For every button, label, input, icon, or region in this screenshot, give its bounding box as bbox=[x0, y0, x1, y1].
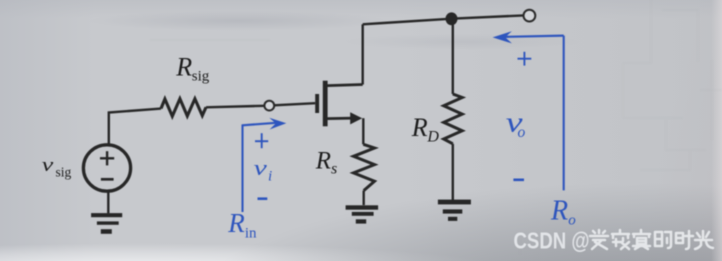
label - (input) bbox=[258, 197, 268, 200]
watermark chinese glyphs bbox=[590, 230, 713, 249]
svg-text:i: i bbox=[268, 169, 272, 185]
transistor Q1 drain lead bbox=[328, 85, 363, 86]
label + (input) bbox=[255, 133, 268, 148]
wire R_sig to input node bbox=[206, 106, 265, 108]
svg-text:R: R bbox=[175, 53, 192, 82]
source v_sig plus bbox=[100, 151, 114, 165]
svg-text:in: in bbox=[245, 225, 257, 241]
svg-text:o: o bbox=[518, 124, 526, 141]
transistor Q1 gate bar bbox=[315, 94, 319, 113]
resistor R_D bbox=[444, 94, 463, 144]
watermark CSDN @ bbox=[514, 228, 590, 254]
svg-text:o: o bbox=[568, 212, 576, 228]
label + (output) bbox=[518, 52, 532, 66]
svg-text:R: R bbox=[550, 196, 568, 227]
wire R_D to ground bbox=[452, 144, 454, 200]
label - (output) bbox=[513, 179, 524, 182]
wire junction down to R_D bbox=[452, 19, 454, 94]
wire: v_sig top lead up and across to R_sig bbox=[109, 109, 161, 146]
resistor R_s bbox=[354, 144, 375, 190]
R_o arrow (blue) bbox=[493, 31, 564, 190]
svg-text:s: s bbox=[331, 161, 337, 178]
wire source down to R_s bbox=[362, 118, 364, 144]
ground (R_s) bbox=[346, 205, 379, 223]
svg-text:CSDN @: CSDN @ bbox=[514, 228, 590, 254]
svg-text:R: R bbox=[315, 147, 331, 174]
svg-text:sig: sig bbox=[56, 164, 72, 179]
svg-text:v: v bbox=[254, 156, 268, 180]
svg-text:R: R bbox=[411, 113, 428, 142]
R_in arrow (blue) bbox=[243, 118, 287, 212]
ground (v_sig) bbox=[91, 213, 122, 234]
source v_sig minus bbox=[101, 178, 114, 181]
wire top rail bbox=[363, 15, 524, 24]
svg-text:v: v bbox=[42, 155, 54, 176]
wire R_s to ground bbox=[363, 191, 365, 206]
node input (open circle) bbox=[264, 101, 274, 111]
wire node to gate bbox=[274, 103, 315, 105]
source v_sig circle bbox=[83, 145, 130, 191]
junction dot bbox=[446, 12, 458, 25]
node output (open circle) bbox=[524, 10, 536, 22]
ground (R_D) bbox=[438, 200, 471, 221]
wire source to ground bbox=[107, 191, 109, 213]
transistor Q1 source arrow bbox=[350, 112, 362, 124]
resistor R_sig bbox=[161, 99, 206, 116]
svg-text:sig: sig bbox=[192, 68, 210, 84]
transistor Q1 channel bar bbox=[323, 81, 328, 127]
transistor Q1 source lead bbox=[328, 117, 355, 120]
svg-text:R: R bbox=[227, 208, 245, 238]
svg-text:D: D bbox=[426, 128, 439, 145]
wire drain up bbox=[362, 24, 364, 84]
